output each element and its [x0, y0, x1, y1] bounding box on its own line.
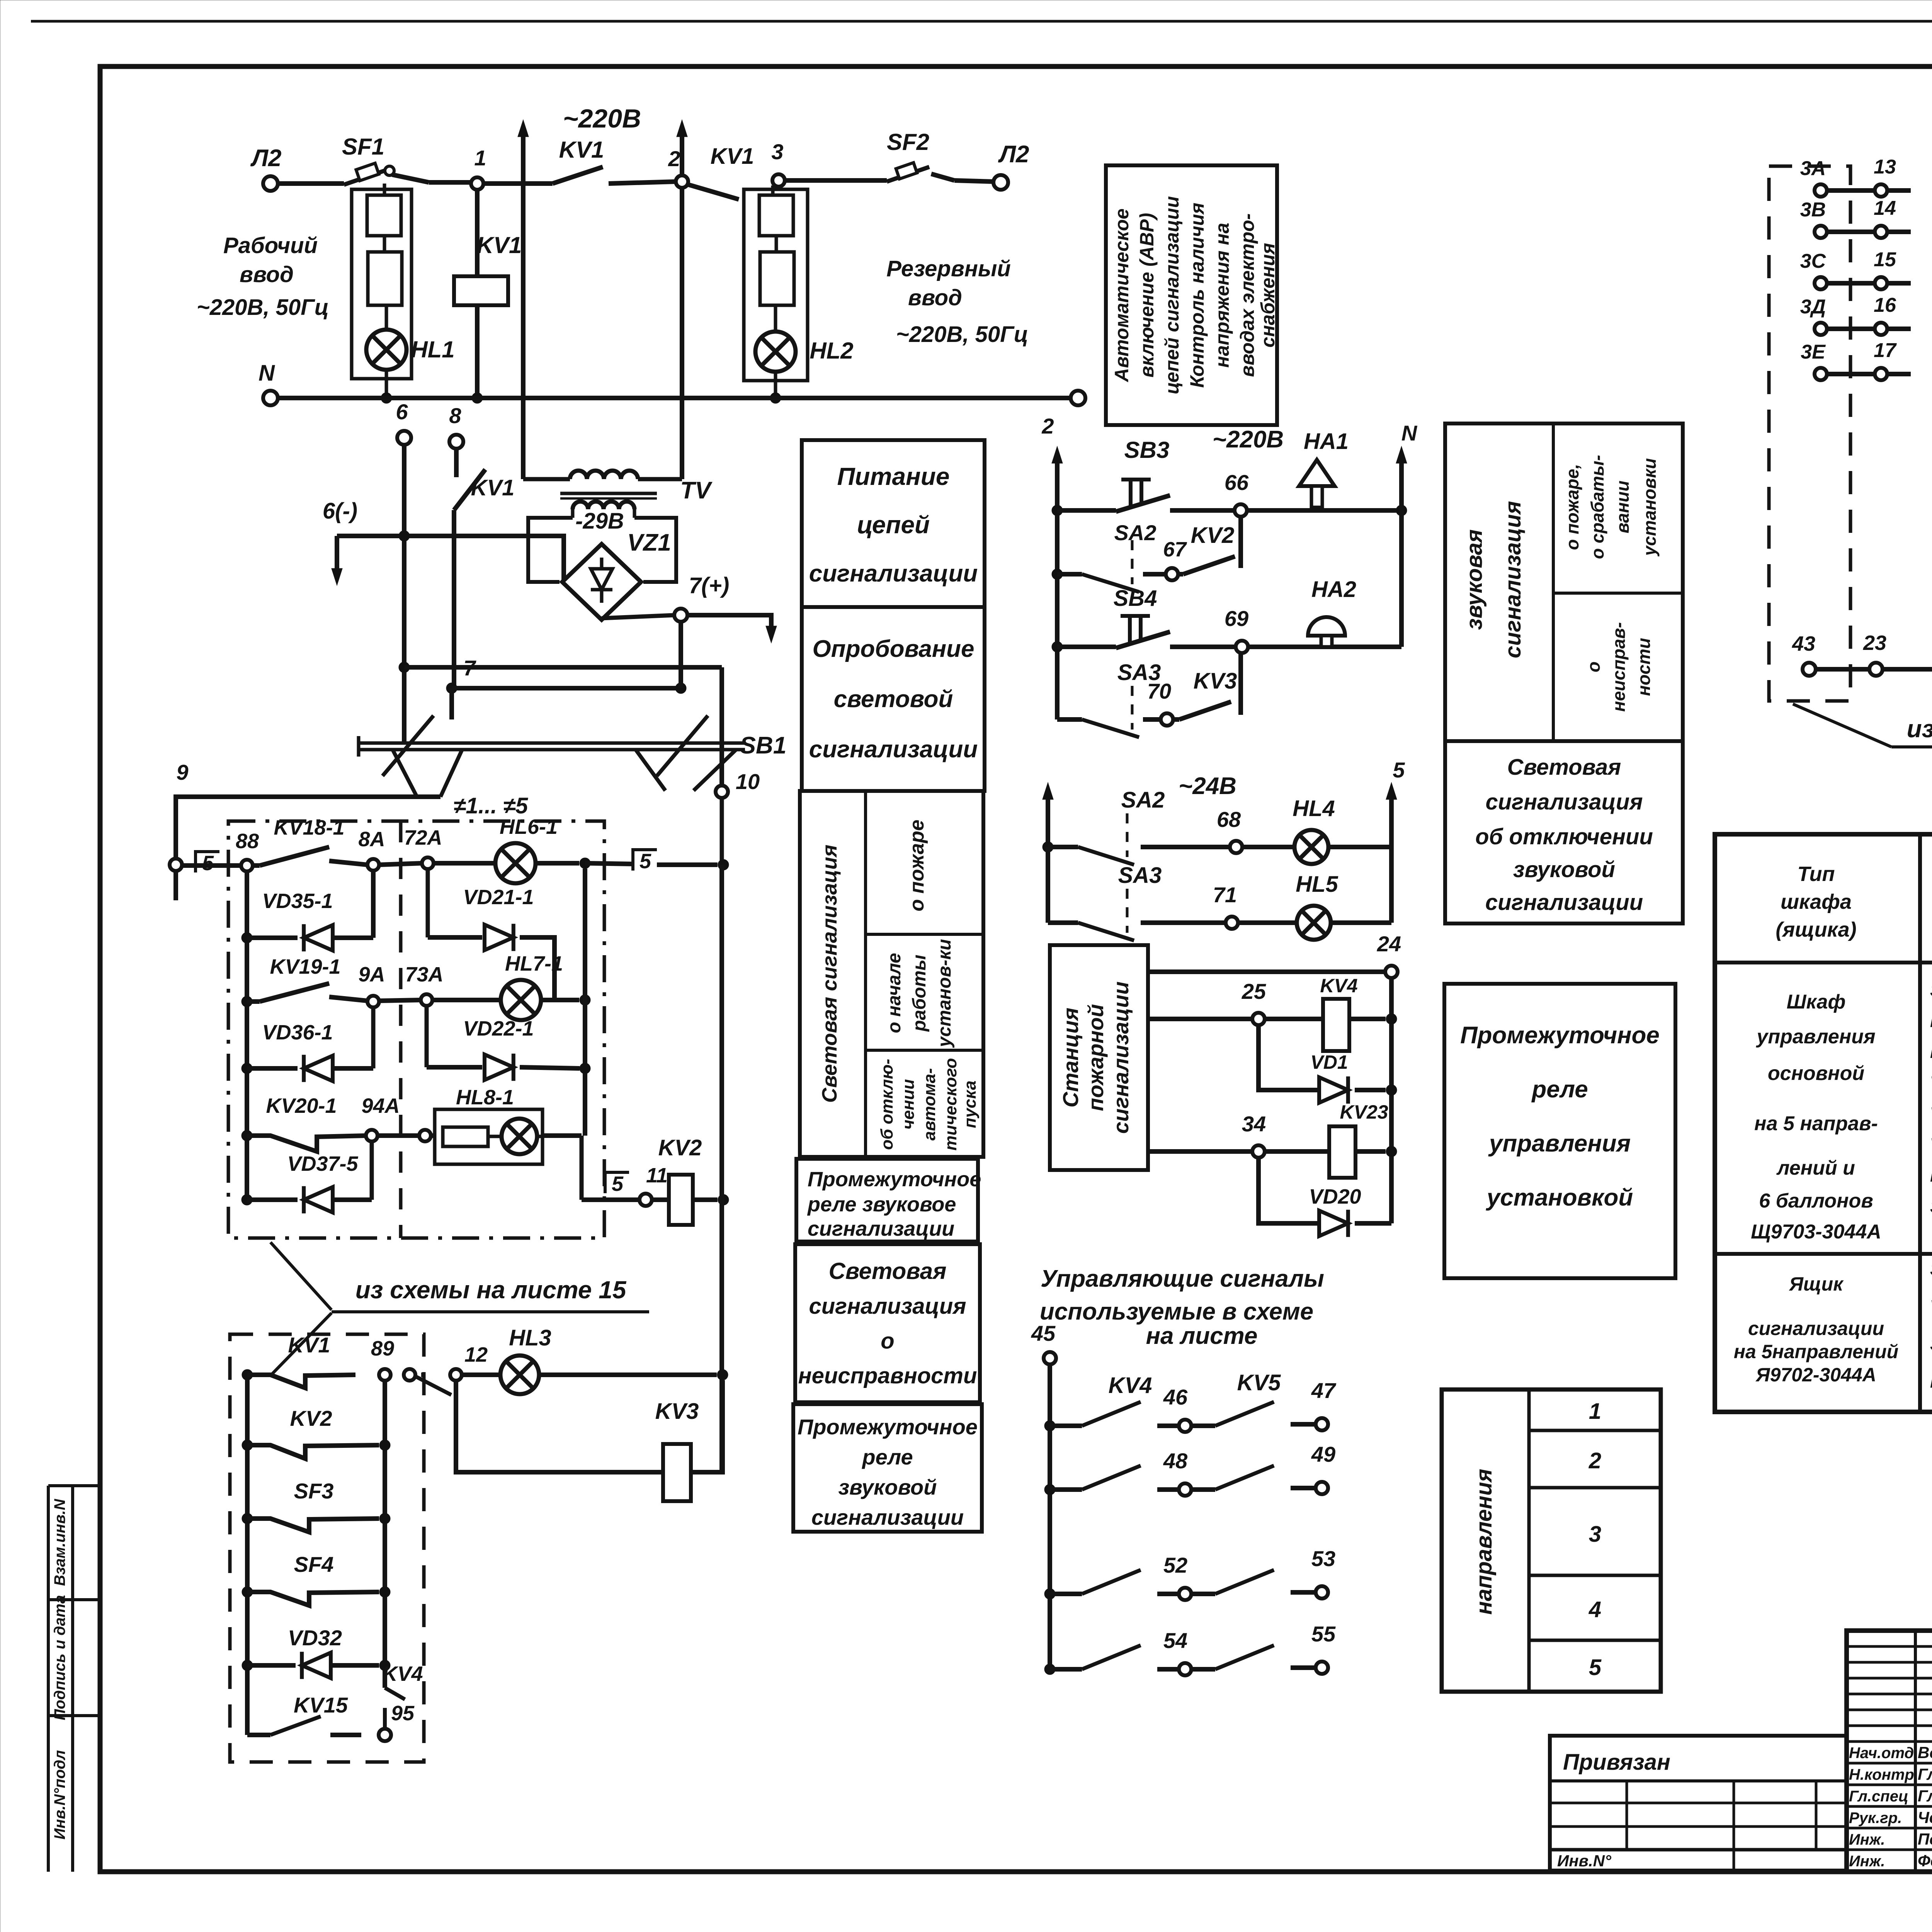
- svg-text:HL4: HL4: [1293, 796, 1335, 821]
- svg-text:реле: реле: [861, 1445, 913, 1469]
- svg-text:Л2: Л2: [250, 145, 281, 172]
- svg-text:управления: управления: [1755, 1026, 1875, 1048]
- svg-text:72А: 72А: [404, 826, 442, 849]
- svg-text:48: 48: [1163, 1449, 1188, 1473]
- svg-text:НА2: НА2: [1311, 577, 1356, 602]
- svg-text:3А: 3А: [1800, 157, 1826, 180]
- svg-text:SF1, SF2, KV1...KV23, VZ1, VD1: SF1, SF2, KV1...KV23, VZ1, VD1... VD10, …: [1930, 1259, 1932, 1279]
- svg-text:на 5направлений: на 5направлений: [1734, 1341, 1898, 1362]
- wire right drop: [1389, 847, 1394, 923]
- contact 89-12: [415, 1375, 451, 1395]
- wire rung1 left: [182, 863, 241, 868]
- svg-text:сигнализации: сигнализации: [1748, 1318, 1884, 1339]
- node 7: [446, 656, 476, 694]
- svg-text:88: 88: [236, 830, 259, 853]
- strip label Инв.№подл: [51, 1750, 68, 1840]
- node rung2 right: [580, 995, 590, 1005]
- sounder HA1: [1247, 429, 1401, 510]
- svg-text:автома-: автома-: [920, 1068, 939, 1141]
- dashed terminal block: [1769, 166, 1850, 701]
- svg-text:3С: 3С: [1800, 250, 1827, 272]
- svg-text:~220В: ~220В: [1213, 426, 1284, 453]
- svg-text:HL7-1: HL7-1: [505, 952, 563, 975]
- terminal 6: [396, 400, 411, 445]
- node HL2-N: [770, 393, 781, 403]
- svg-text:неисправности: неисправности: [798, 1363, 977, 1388]
- svg-text:SB1: SB1: [740, 732, 787, 759]
- svg-text:Глотова: Глотова: [1918, 1787, 1932, 1805]
- wire: [392, 175, 477, 182]
- node 88: [236, 830, 259, 871]
- svg-text:об отклю-: об отклю-: [878, 1059, 896, 1150]
- svg-text:24: 24: [1377, 932, 1401, 956]
- svg-text:Н.контр: Н.контр: [1849, 1766, 1914, 1783]
- svg-text:напряжения на: напряжения на: [1211, 223, 1233, 367]
- svg-text:SF1... SF4,КМ,KV1...KV17,КТ1,: SF1... SF4,КМ,KV1...KV17,КТ1, КТ2, KV18-…: [1930, 980, 1932, 1000]
- svg-text:71: 71: [1213, 883, 1237, 907]
- wire 6(-) bus: [337, 536, 564, 581]
- svg-text:сигнализация: сигнализация: [809, 1294, 966, 1319]
- svg-text:SA2: SA2: [1114, 520, 1156, 545]
- wire lower bus: [399, 662, 722, 673]
- svg-text:≠1... ≠5: ≠1... ≠5: [454, 793, 528, 818]
- switch SA3 b: [1048, 847, 1162, 940]
- svg-text:вании: вании: [1612, 481, 1633, 534]
- diode VD1: [1259, 1025, 1397, 1104]
- node 89: [371, 1337, 394, 1381]
- wire: [483, 181, 553, 186]
- svg-text:Л2: Л2: [998, 141, 1029, 168]
- svg-text:реле звуковое: реле звуковое: [807, 1193, 956, 1216]
- svg-text:3В: 3В: [1800, 199, 1826, 221]
- node 12: [450, 1343, 488, 1381]
- svg-text:70: 70: [1147, 679, 1171, 703]
- svg-text:9А: 9А: [358, 963, 385, 986]
- label Рабочий ввод: [197, 233, 329, 320]
- diode VD35-1: [241, 889, 373, 951]
- svg-text:пожарной: пожарной: [1083, 1004, 1108, 1111]
- svg-text:VD22-1: VD22-1: [463, 1017, 534, 1040]
- svg-text:5: 5: [1589, 1655, 1602, 1680]
- svg-text:47: 47: [1311, 1378, 1337, 1403]
- svg-text:KV19-1: KV19-1: [270, 955, 340, 978]
- wire: [378, 1133, 419, 1138]
- svg-text:SA3: SA3: [1118, 863, 1162, 888]
- svg-text:о пожаре: о пожаре: [906, 820, 928, 912]
- svg-text:HL6-1...HL6-5, HL7-1...HL7-5,: HL6-1...HL6-5, HL7-1...HL7-5, HL8-1... H…: [1930, 1371, 1932, 1391]
- label ~220В ladder: [1213, 426, 1284, 453]
- signal lamp HL2: [755, 305, 854, 372]
- SB1 left contact: [383, 716, 462, 797]
- svg-text:о: о: [1583, 662, 1604, 672]
- wire 6 down: [402, 445, 406, 743]
- signal lamp HL5: [1238, 872, 1391, 940]
- svg-text:N: N: [1401, 421, 1418, 445]
- svg-text:световой: световой: [834, 686, 953, 713]
- svg-text:KV1: KV1: [711, 144, 754, 169]
- label circuits 1..5: [454, 793, 528, 818]
- title block people rows: [1847, 1763, 1932, 1850]
- svg-text:Шкаф: Шкаф: [1787, 991, 1846, 1013]
- note box Световая о неисправности: [795, 1244, 980, 1402]
- svg-text:HL2: HL2: [810, 338, 853, 364]
- svg-text:HL3: HL3: [509, 1325, 551, 1350]
- svg-text:46: 46: [1163, 1385, 1188, 1409]
- svg-text:Световая: Световая: [1507, 755, 1621, 780]
- svg-text:7(+): 7(+): [689, 573, 730, 598]
- title block left grid rows: [1847, 1646, 1932, 1742]
- svg-text:ввод: ввод: [908, 285, 962, 310]
- svg-text:HL1: HL1: [411, 337, 454, 362]
- note box Промежуточное реле звуковой: [793, 1404, 982, 1532]
- svg-text:3: 3: [1589, 1522, 1601, 1547]
- svg-text:KV1: KV1: [559, 137, 604, 163]
- svg-text:SB4: SB4: [1114, 586, 1157, 611]
- svg-text:23: 23: [1863, 631, 1886, 655]
- svg-text:на 5 направ-: на 5 направ-: [1754, 1112, 1878, 1135]
- node 1: [471, 146, 486, 190]
- wire lamp to N: [385, 370, 388, 398]
- svg-text:SB4, SA1, SA2, SA3, НА1, НА2,: SB4, SA1, SA2, SA3, НА1, НА2, HL1... HL5…: [1930, 1334, 1932, 1354]
- SB1 right contact: [636, 716, 736, 791]
- svg-text:89: 89: [371, 1337, 394, 1360]
- dashed block boundary: [230, 1334, 424, 1762]
- terminal 7(+): [674, 573, 729, 622]
- lamp unit HL8-1: [431, 1086, 582, 1164]
- wire: [379, 1000, 421, 1001]
- table row2 col2: [1930, 1259, 1932, 1391]
- svg-text:5: 5: [612, 1172, 624, 1196]
- flag 5 KV2: [605, 1172, 629, 1196]
- relay contact KV1: [553, 137, 676, 184]
- node 94А: [366, 1130, 378, 1141]
- svg-text:шкафа: шкафа: [1781, 890, 1852, 913]
- table row1 col1: [1751, 991, 1881, 1243]
- node HL8 in: [419, 1130, 431, 1141]
- label Управляющие сигналы: [1040, 1265, 1324, 1349]
- svg-text:об отключении: об отключении: [1475, 824, 1653, 849]
- wire to SB1 left: [449, 688, 454, 719]
- diode VD32: [242, 1626, 390, 1679]
- svg-text:66: 66: [1225, 470, 1249, 495]
- title block left grid verticals: [1915, 1631, 1932, 1872]
- diode VD21-1: [428, 869, 554, 1000]
- svg-text:4: 4: [1588, 1597, 1601, 1622]
- pushbutton SB4: [1052, 586, 1236, 652]
- svg-text:Ящик: Ящик: [1788, 1273, 1844, 1295]
- svg-text:KV23: KV23: [1340, 1101, 1388, 1123]
- wire 7 bus: [452, 622, 686, 694]
- terminal pair 3Д/16: [1800, 294, 1911, 335]
- svg-text:Подпись и дата: Подпись и дата: [51, 1595, 68, 1720]
- relay contact KV2 b2: [242, 1406, 390, 1459]
- fuse element: [367, 184, 402, 305]
- arrow 6(-): [332, 536, 342, 585]
- svg-text:SF2: SF2: [887, 129, 929, 155]
- svg-text:Инв.N°: Инв.N°: [1557, 1852, 1612, 1870]
- signal lamp HL4: [1242, 796, 1391, 864]
- wire: [931, 174, 993, 182]
- node 71: [1141, 883, 1238, 929]
- relay contact KV3 ladder: [1173, 653, 1241, 719]
- svg-text:о: о: [881, 1328, 894, 1354]
- terminal 9-5: [170, 852, 219, 900]
- svg-text:SF1: SF1: [342, 134, 384, 160]
- svg-text:16: 16: [1874, 294, 1896, 316]
- note box АВР: [1106, 165, 1279, 425]
- svg-text:VD1: VD1: [1310, 1051, 1348, 1073]
- title block outline: [1847, 1631, 1932, 1872]
- vertical right inner: [583, 869, 587, 1136]
- svg-text:~220В: ~220В: [563, 104, 641, 133]
- svg-text:Рук.гр.: Рук.гр.: [1849, 1810, 1902, 1827]
- terminal pair 3А/13: [1800, 156, 1911, 197]
- svg-text:KV1: KV1: [288, 1333, 330, 1357]
- svg-text:Гл.спец: Гл.спец: [1849, 1788, 1908, 1805]
- wire to 25: [1148, 1017, 1252, 1021]
- svg-text:KV2: KV2: [658, 1135, 702, 1160]
- svg-text:45: 45: [1031, 1321, 1056, 1345]
- svg-text:9: 9: [176, 760, 188, 784]
- svg-text:2: 2: [1041, 414, 1054, 438]
- relay contact KV1 second: [689, 144, 754, 199]
- relay contact KV15: [247, 1693, 361, 1735]
- signal lamp HL1: [366, 305, 455, 370]
- note box Питание цепей сигнализации: [802, 440, 985, 607]
- diode VD20: [1259, 1158, 1391, 1237]
- switch SA2 b: [1043, 787, 1165, 865]
- diode VD37-5: [241, 1141, 372, 1213]
- fuse-lamp unit HL2 box: [744, 189, 808, 381]
- breaker contact SF3: [242, 1479, 390, 1532]
- svg-text:VD34-5,VD35-1...VD35-5, VD36-1: VD34-5,VD35-1...VD35-5, VD36-1...VD36-5,: [1930, 1073, 1932, 1093]
- wire to 24: [1148, 969, 1385, 974]
- node rung1 right: [580, 858, 634, 869]
- svg-text:SF3: SF3: [294, 1479, 334, 1503]
- wire 9: [176, 760, 440, 859]
- bridge rectifier VZ1: [562, 529, 671, 620]
- svg-text:KV1: KV1: [477, 232, 522, 258]
- relay contact KV19-1: [241, 955, 367, 1007]
- node 6bus: [399, 531, 410, 541]
- node 9А: [358, 963, 385, 1007]
- svg-text:8: 8: [449, 403, 461, 428]
- node 66: [1225, 470, 1249, 517]
- terminal 10: [716, 769, 760, 865]
- svg-text:Привязан: Привязан: [1563, 1750, 1670, 1775]
- svg-text:N: N: [259, 361, 275, 386]
- svg-text:1: 1: [1589, 1399, 1601, 1424]
- node 8А: [358, 828, 385, 871]
- sub vertical 88: [245, 871, 249, 1200]
- svg-text:Федосова: Федосова: [1918, 1852, 1932, 1870]
- relay contact KV20-1: [241, 1094, 400, 1151]
- svg-text:звуковой: звуковой: [1513, 857, 1615, 882]
- svg-text:включение (АВР): включение (АВР): [1136, 213, 1158, 378]
- wire riser left 24: [1043, 782, 1053, 847]
- svg-text:7: 7: [463, 656, 476, 680]
- svg-text:Глотова: Глотова: [1918, 1765, 1932, 1783]
- svg-text:о срабаты-: о срабаты-: [1587, 455, 1607, 559]
- svg-text:~220В, 50Гц: ~220В, 50Гц: [896, 322, 1028, 347]
- svg-text:Рабочий: Рабочий: [223, 233, 318, 258]
- contacts rung 54-55: [1044, 1622, 1336, 1675]
- svg-text:6 баллонов: 6 баллонов: [1759, 1190, 1873, 1212]
- svg-text:SB3: SB3: [1124, 437, 1170, 463]
- terminal Л2 left: [250, 145, 281, 191]
- svg-text:KV3: KV3: [655, 1399, 699, 1424]
- svg-text:вводах электро-: вводах электро-: [1236, 213, 1258, 377]
- svg-text:69: 69: [1225, 606, 1248, 631]
- svg-text:KV2: KV2: [1191, 523, 1235, 548]
- svg-text:KV20-1: KV20-1: [266, 1094, 337, 1117]
- svg-text:53: 53: [1311, 1546, 1335, 1571]
- relay coil KV3: [456, 1380, 723, 1501]
- svg-text:3: 3: [771, 139, 783, 164]
- svg-text:Световая сигнализация: Световая сигнализация: [818, 845, 841, 1103]
- svg-text:сигнализации: сигнализации: [1109, 981, 1133, 1134]
- svg-text:11: 11: [646, 1164, 668, 1187]
- svg-text:KV18-1: KV18-1: [274, 816, 344, 839]
- svg-text:KV4: KV4: [382, 1662, 423, 1685]
- note box Промежуточное реле звуковое: [796, 1159, 981, 1242]
- svg-text:управления: управления: [1488, 1130, 1631, 1157]
- svg-text:сигнализации: сигнализации: [809, 560, 978, 587]
- terminal pair 3Е/17: [1801, 339, 1911, 380]
- node 2: [668, 146, 688, 188]
- svg-text:сигнализации: сигнализации: [808, 1217, 954, 1240]
- svg-text:реле: реле: [1531, 1076, 1588, 1103]
- relay contact KV18-1: [253, 816, 367, 866]
- relay contact KV1 on wire 8: [454, 469, 514, 688]
- terminal 8: [449, 403, 463, 449]
- block2 left vertical: [245, 1375, 250, 1735]
- label -29В: [575, 509, 624, 534]
- svg-text:5: 5: [639, 850, 651, 873]
- svg-text:73А: 73А: [405, 963, 443, 986]
- label ~24В: [1179, 773, 1236, 799]
- svg-text:(ящика): (ящика): [1776, 918, 1856, 941]
- pushbutton SB1 bar: [359, 732, 786, 759]
- vertical 89 down: [383, 1381, 387, 1688]
- svg-text:Нач.отд: Нач.отд: [1849, 1745, 1914, 1762]
- svg-text:неисправ-: неисправ-: [1609, 622, 1629, 712]
- table row2 col1: [1734, 1273, 1898, 1386]
- svg-text:цепей сигнализации: цепей сигнализации: [1161, 196, 1183, 395]
- svg-text:~24В: ~24В: [1179, 773, 1236, 799]
- svg-text:снабжения: снабжения: [1257, 243, 1279, 348]
- svg-text:SF4: SF4: [294, 1552, 334, 1577]
- switch SA2: [1052, 520, 1156, 592]
- svg-text:Червоткин: Червоткин: [1918, 1808, 1932, 1827]
- contacts rung 48-49: [1044, 1442, 1335, 1496]
- terminal 24: [1377, 932, 1401, 1223]
- wire ~220V riser right: [677, 120, 687, 479]
- svg-text:VZ1: VZ1: [627, 529, 671, 556]
- svg-text:Промежуточное: Промежуточное: [808, 1168, 981, 1191]
- svg-text:Опробование: Опробование: [812, 636, 974, 662]
- svg-text:Промежуточное: Промежуточное: [798, 1415, 978, 1439]
- node 34: [1242, 1112, 1266, 1158]
- terminal 95: [379, 1702, 415, 1741]
- svg-text:VD37-1...VD37-5, VD38-1...VD38: VD37-1...VD37-5, VD38-1...VD38-5, VD39-1…: [1930, 1104, 1932, 1124]
- node KV2 right: [718, 1194, 729, 1205]
- svg-text:VD21-1: VD21-1: [463, 886, 534, 909]
- wire: [785, 178, 887, 183]
- svg-text:3Е: 3Е: [1801, 341, 1826, 363]
- svg-text:2: 2: [668, 146, 680, 171]
- table row1 col2: [1930, 980, 1932, 1216]
- relay contact KV4 b2: [382, 1662, 423, 1729]
- svg-text:KV4: KV4: [1109, 1373, 1152, 1398]
- title block people names: [1849, 1743, 1932, 1870]
- node HL3 right: [717, 1369, 728, 1380]
- svg-text:из схемы на листе 15: из схемы на листе 15: [355, 1276, 627, 1304]
- node 68: [1141, 807, 1242, 853]
- leader из схемы: [270, 1242, 332, 1376]
- relay coil KV23: [1265, 1101, 1397, 1178]
- svg-text:Инж.: Инж.: [1849, 1831, 1885, 1848]
- svg-text:VD35-1: VD35-1: [262, 889, 333, 913]
- svg-text:чении: чении: [899, 1079, 918, 1130]
- svg-text:~220В, 50Гц: ~220В, 50Гц: [197, 295, 329, 320]
- svg-text:KV15: KV15: [294, 1693, 348, 1717]
- svg-text:34: 34: [1242, 1112, 1266, 1136]
- svg-text:Я9702-3044А: Я9702-3044А: [1755, 1364, 1876, 1386]
- svg-text:13: 13: [1874, 156, 1896, 178]
- svg-text:из схемы на листе 15: из схемы на листе 15: [1907, 715, 1932, 743]
- svg-text:67: 67: [1163, 538, 1187, 561]
- terminal 11: [582, 1164, 668, 1206]
- svg-text:работы: работы: [909, 955, 930, 1032]
- relay coil KV1: [454, 190, 522, 398]
- svg-text:звуковой: звуковой: [838, 1475, 937, 1499]
- node 73А: [405, 963, 443, 1006]
- svg-text:R, R1-1, R1-5, R2-1, R2-5, SB1: R, R1-1, R1-5, R2-1, R2-5, SB1, SB2, SA1…: [1930, 1165, 1932, 1185]
- rectifier loop: [528, 518, 676, 582]
- svg-text:2: 2: [1588, 1448, 1601, 1473]
- svg-text:17: 17: [1874, 339, 1897, 362]
- svg-text:KV3: KV3: [1194, 668, 1237, 694]
- diode VD22-1: [427, 1005, 590, 1081]
- wire lower bus drop: [719, 667, 724, 786]
- svg-text:6: 6: [396, 400, 408, 424]
- dash-dot block boundary: [228, 821, 604, 1238]
- terminal pair 3С/15: [1800, 248, 1911, 289]
- svg-text:о пожаре,: о пожаре,: [1562, 464, 1582, 550]
- svg-text:94А: 94А: [361, 1094, 400, 1117]
- wire riser 2: [1041, 414, 1063, 719]
- signal lamp HL6-1: [434, 815, 579, 883]
- circuit breaker SF1: [342, 134, 394, 185]
- svg-text:-29В: -29В: [575, 509, 624, 534]
- strip label Подпись и дата: [51, 1595, 68, 1720]
- svg-text:ности: ности: [1634, 638, 1654, 696]
- svg-text:8А: 8А: [358, 828, 385, 851]
- svg-text:VD21-5, VD22-1... VD22-5, TV,: VD21-5, VD22-1... VD22-5, TV, SB1, SB2, …: [1930, 1296, 1932, 1316]
- svg-text:VD20: VD20: [1309, 1185, 1361, 1208]
- relay coil KV2: [652, 1135, 718, 1225]
- svg-text:KV2: KV2: [290, 1406, 332, 1430]
- relay coil KV4: [1265, 975, 1397, 1051]
- wire lamp2 to N: [774, 372, 777, 398]
- svg-text:6(-): 6(-): [323, 498, 357, 524]
- box Станция пожарной сигнализации: [1050, 945, 1148, 1170]
- breaker contact SF4: [242, 1552, 390, 1605]
- svg-text:15: 15: [1874, 248, 1896, 271]
- svg-text:тического: тического: [941, 1058, 960, 1151]
- svg-text:10: 10: [736, 769, 760, 794]
